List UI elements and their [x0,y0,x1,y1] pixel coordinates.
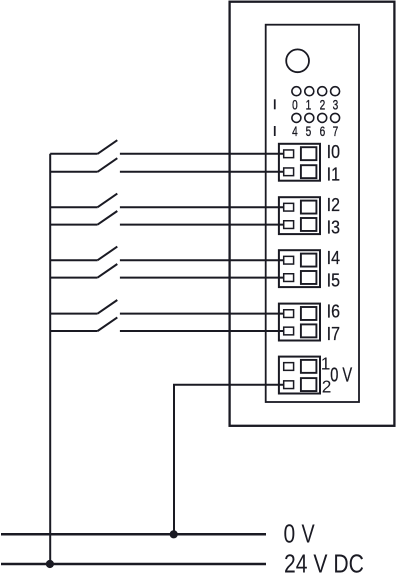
terminal 0V pin 2 clamp [284,381,294,389]
terminal I2 clamp [284,203,294,211]
terminal I7 clamp [284,327,294,335]
svg-text:1: 1 [306,96,312,112]
junction dot 0V rail / pin-2 wire [170,530,178,538]
svg-text:V: V [302,521,316,549]
terminal block I4/I5 [279,250,320,287]
terminal 0V pin 2 screw [301,378,317,391]
switch S4 wire from bus [50,224,97,226]
svg-text:5: 5 [306,123,312,139]
switch S1 wire from bus [50,153,97,155]
module outer outline [230,2,395,426]
wire switch S3 to terminal I2 [120,206,284,208]
terminal block I6/I7 [279,304,320,341]
svg-text:7: 7 [333,123,339,139]
terminal 0V pin 1 screw [301,360,317,373]
label 0 V (rail) [284,521,316,549]
terminal I6 clamp [284,310,294,318]
svg-text:2: 2 [320,96,326,112]
LED I2 [318,87,327,96]
terminal I0 screw [301,147,317,160]
svg-text:I7: I7 [327,323,340,344]
svg-text:3: 3 [333,96,339,112]
terminal I1 screw [301,165,317,178]
LED I0 [292,87,301,96]
switch S6 blade [98,264,118,278]
LED I3 [331,87,340,96]
wire switch S7 to terminal I6 [120,313,284,315]
svg-text:I6: I6 [327,300,340,321]
wire switch S5 to terminal I4 [120,259,284,261]
switch S1 blade [98,140,118,154]
svg-text:I1: I1 [327,164,340,185]
wire switch S2 to terminal I1 [120,171,284,173]
terminal I2 screw [301,201,317,214]
wire switch S4 to terminal I3 [120,224,284,226]
switch S7 wire from bus [50,313,97,315]
wire terminal 0V pin 2 to 0V rail [174,385,284,535]
terminal I0 clamp [284,150,294,158]
terminal I6 screw [301,307,317,320]
svg-text:I4: I4 [327,247,340,268]
junction dot 24V rail / supply bus [46,560,54,568]
terminal block 0V [279,357,320,394]
label I (LED row 2) [274,126,276,136]
terminal I3 clamp [284,221,294,229]
svg-text:0: 0 [284,521,296,549]
svg-text:0 V: 0 V [330,364,352,386]
wire switch S8 to terminal I7 [120,330,284,332]
wire switch S1 to terminal I0 [120,153,284,155]
terminal block I2/I3 [279,197,320,234]
switch S8 wire from bus [50,330,97,332]
terminal 0V pin 1 clamp [284,363,294,371]
LED I5 [305,113,314,122]
svg-text:6: 6 [320,123,326,139]
24V supply bus (vertical wire) [49,154,51,564]
svg-text:0: 0 [292,96,298,112]
switch S2 wire from bus [50,171,97,173]
svg-text:I3: I3 [327,217,340,238]
svg-text:24 V DC: 24 V DC [284,550,364,578]
switch S3 blade [98,194,118,208]
switch S8 blade [98,317,118,331]
terminal I4 screw [301,254,317,267]
svg-text:I5: I5 [327,270,340,291]
label I (LED row 1) [274,99,276,109]
switch S2 blade [98,158,118,172]
LED I4 [292,113,301,122]
terminal I5 clamp [284,274,294,282]
indicator lens circle [286,49,309,72]
LED I6 [318,113,327,122]
switch S3 wire from bus [50,206,97,208]
switch S7 blade [98,300,118,314]
svg-text:4: 4 [292,123,298,139]
terminal block I0/I1 [279,144,320,181]
switch S5 blade [98,247,118,261]
module front panel [266,25,359,402]
terminal I1 clamp [284,168,294,176]
LED I7 [331,113,340,122]
svg-text:I2: I2 [327,194,340,215]
terminal I5 screw [301,271,317,284]
svg-text:1: 1 [321,353,331,373]
24 V DC rail [1,563,266,566]
wire switch S6 to terminal I5 [120,277,284,279]
switch S6 wire from bus [50,277,97,279]
switch S4 blade [98,211,118,225]
svg-text:I0: I0 [327,141,340,162]
terminal I3 screw [301,218,317,231]
LED I1 [305,87,314,96]
terminal I7 screw [301,324,317,337]
switch S5 wire from bus [50,259,97,261]
0 V rail [1,533,266,536]
terminal I4 clamp [284,256,294,264]
